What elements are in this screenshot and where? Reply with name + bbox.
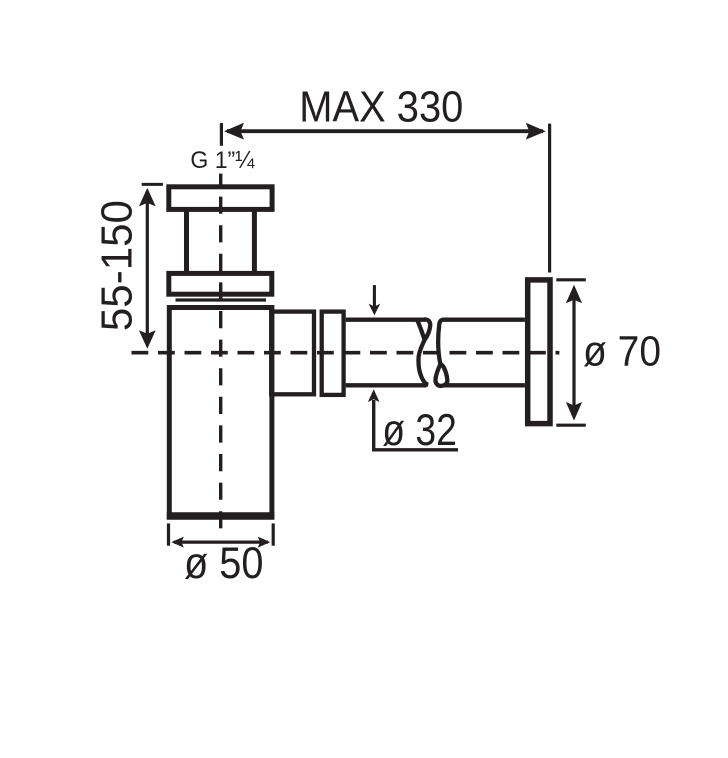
arrowhead o32 down (to pipe top) — [369, 304, 381, 316]
trap body (cup) — [169, 308, 272, 518]
arrowhead o70 down — [566, 402, 582, 421]
pipe segment 2 bottom edge — [444, 383, 525, 387]
svg-text:ø 50: ø 50 — [184, 537, 264, 588]
dimension line MAX 330 — [227, 129, 543, 133]
arrowhead 55-150 down — [139, 330, 156, 349]
svg-text:55-150: 55-150 — [94, 200, 142, 331]
svg-text:ø 70: ø 70 — [583, 328, 661, 376]
arrowhead o70 up — [566, 285, 582, 304]
dim o70 extension tick top — [556, 278, 586, 281]
extension line right of MAX330 down to flange — [548, 124, 551, 273]
arrowhead o50 left — [171, 537, 184, 548]
dim o32 leader (vertical + underline) — [374, 400, 458, 450]
dim o50 extension line left — [167, 523, 170, 545]
arrowhead MAX330 right — [526, 123, 546, 140]
extension tick left of MAX330 — [220, 123, 223, 146]
inlet neck right wall — [252, 211, 257, 271]
dim o50 extension line right — [272, 523, 275, 545]
dim o70 extension tick bottom — [556, 424, 586, 427]
trap body bottom edge (thicker) — [167, 512, 275, 520]
pipe segment 1 top edge — [346, 318, 426, 322]
inlet nut (top flange) — [169, 187, 272, 210]
dim o32 down arrow line — [373, 285, 376, 307]
svg-text:MAX 330: MAX 330 — [299, 84, 463, 132]
outlet socket — [271, 312, 314, 395]
outlet nut — [322, 312, 344, 395]
washer line under nut — [176, 298, 267, 301]
arrowhead o32 up (to pipe bottom) — [368, 389, 380, 402]
wall flange — [528, 280, 550, 424]
dim 55-150 extension tick top — [142, 183, 163, 186]
svg-text:ø 32: ø 32 — [382, 406, 457, 455]
svg-text:G 1”¼: G 1”¼ — [190, 147, 255, 174]
pipe break left — [417, 319, 430, 384]
lower nut — [169, 273, 272, 294]
vertical centerline (dashed) — [219, 174, 222, 530]
inlet neck left wall — [184, 211, 189, 271]
pipe segment 1 bottom edge — [346, 383, 427, 387]
dim o50 line — [174, 540, 268, 543]
pipe break right — [435, 320, 447, 386]
horizontal centerline (dashed) — [132, 351, 560, 355]
dim 55-150 arrow line — [146, 193, 149, 342]
pipe segment 2 top edge — [442, 318, 525, 322]
dim o70 arrow line — [572, 290, 575, 415]
arrowhead o50 right — [258, 537, 271, 548]
arrowhead MAX330 left — [224, 123, 244, 140]
arrowhead 55-150 up — [139, 188, 156, 207]
